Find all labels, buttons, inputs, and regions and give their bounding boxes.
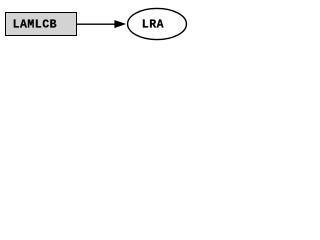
svg-text:LRA: LRA <box>142 18 164 31</box>
node LAMLCB (box) <box>6 13 77 36</box>
node LRA (ellipse) <box>128 8 187 39</box>
wire edge LAMLCB->LRA <box>77 23 116 25</box>
arrowhead <box>115 20 125 27</box>
svg-text:LAMLCB: LAMLCB <box>13 18 57 31</box>
